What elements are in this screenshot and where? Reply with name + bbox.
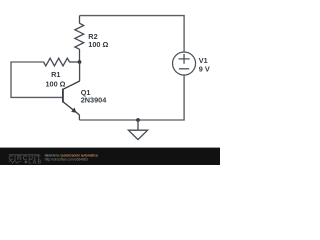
wire R2 bottom lead to collector node [79,49,81,62]
wire emitter stub to bottom rail [78,115,80,120]
svg-text:■LAB: ■LAB [24,159,42,165]
wire R1 right lead to collector node [69,61,79,63]
wire top rail from R2 top to V1 plus terminal [80,16,185,52]
Q1 emitter diagonal [63,102,79,115]
ground symbol [128,120,147,140]
resistor R1 [44,58,70,66]
node collector junction (R1/R2/Q1 collector) [78,60,82,64]
svg-text:2N3904: 2N3904 [81,96,108,105]
svg-text:100 Ω: 100 Ω [45,80,65,89]
Q1 emitter arrowhead [71,108,76,113]
Q1 collector diagonal [63,81,80,89]
ground triangle [128,130,147,139]
voltage source V1 [173,52,196,75]
transistor Q1 2N3904 [63,81,80,115]
wire feedback loop from R1 left terminal down and right to Q1 base [11,62,62,97]
node ground junction on bottom rail [136,118,140,122]
watermark bar [0,148,220,165]
V1 plus sign [179,54,190,64]
wire collector stub down to Q1 [79,62,81,81]
ground stub [137,120,139,130]
Q1 base bar [62,89,64,103]
resistor R2 [75,23,84,49]
svg-text:R1: R1 [51,70,60,79]
V1 minus sign [179,68,189,70]
svg-text:9 V: 9 V [199,64,210,73]
wire R2 top lead [79,16,81,24]
watermark CircuitLab logo [9,155,43,166]
svg-text:100 Ω: 100 Ω [88,40,108,49]
svg-text:http://circuitlab.com/c664883: http://circuitlab.com/c664883 [45,157,88,161]
wire bottom rail from Q1 emitter to V1 minus terminal [79,75,184,120]
